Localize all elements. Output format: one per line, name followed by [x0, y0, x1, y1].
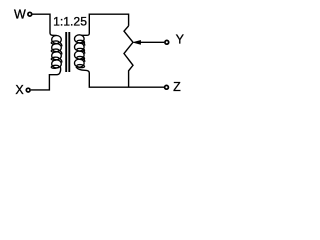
svg-text:W: W	[14, 8, 26, 22]
svg-text:X: X	[15, 83, 24, 97]
svg-text:Y: Y	[176, 33, 185, 47]
svg-text:Z: Z	[173, 80, 181, 94]
svg-text:1:1.25: 1:1.25	[53, 14, 87, 28]
